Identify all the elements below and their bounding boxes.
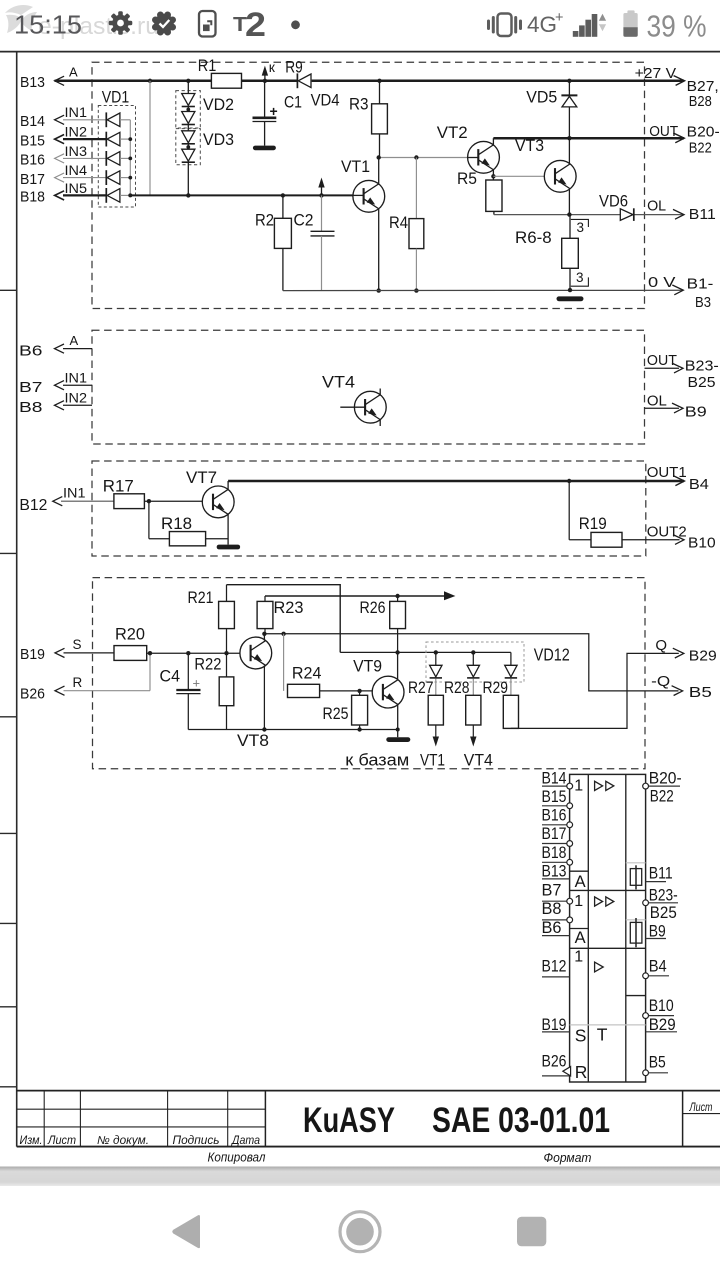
- svg-text:R1: R1: [198, 56, 217, 75]
- svg-text:IN2: IN2: [65, 390, 88, 406]
- nav back button: [172, 1215, 200, 1248]
- svg-text:IN2: IN2: [65, 124, 88, 140]
- pin B4 (logic): [643, 957, 669, 979]
- svg-text:R28: R28: [444, 678, 470, 697]
- resistor R26: [360, 596, 406, 652]
- transistor VT3: [515, 136, 576, 192]
- svg-text:A: A: [70, 333, 79, 348]
- svg-text:R23: R23: [274, 598, 304, 617]
- pin B16 (logic): [542, 806, 573, 828]
- svg-text:B5: B5: [649, 1053, 666, 1072]
- wire R29 to Q output: [511, 648, 684, 728]
- svg-text:B18: B18: [542, 843, 567, 862]
- functional block 4 dashed border: [93, 578, 646, 769]
- svg-text:+: +: [555, 10, 563, 26]
- pin B11 (logic): [646, 864, 673, 883]
- bottom bus wire: [188, 728, 399, 732]
- svg-text:B6: B6: [542, 918, 562, 937]
- svg-text:4G: 4G: [527, 12, 557, 37]
- svg-text:2: 2: [245, 6, 266, 44]
- wire: [120, 119, 130, 121]
- svg-text:B22: B22: [650, 787, 674, 806]
- svg-text:Формат: Формат: [544, 1151, 592, 1165]
- svg-text:R24: R24: [292, 664, 322, 683]
- svg-text:B13: B13: [542, 862, 567, 881]
- resistor R25: [323, 691, 368, 732]
- svg-text:A: A: [575, 929, 586, 947]
- pin B16 input IN3: [20, 143, 106, 169]
- bottom shadow bar: [0, 1167, 720, 1187]
- pin B12 (logic): [542, 957, 570, 977]
- svg-text:B16: B16: [20, 152, 45, 169]
- svg-text:IN5: IN5: [65, 180, 88, 196]
- wire VT1 collector node: [377, 155, 469, 184]
- svg-text:+27 V: +27 V: [635, 65, 677, 82]
- svg-text:R22: R22: [194, 655, 221, 674]
- pin B26 input R: [20, 653, 150, 702]
- capacitor C2: [294, 195, 335, 290]
- transistor VT4: [322, 373, 386, 426]
- wire VT2 collector to OUT rail: [492, 138, 494, 145]
- svg-text:B14: B14: [20, 113, 45, 130]
- pin B20-B22 OUT output: [649, 123, 720, 157]
- diode stack VD2: [176, 81, 234, 128]
- pin B26 (logic) with edge triangle: [542, 1052, 571, 1076]
- pin B6 input A: [19, 333, 92, 360]
- svg-text:B26: B26: [542, 1052, 567, 1071]
- svg-text:IN3: IN3: [65, 143, 88, 159]
- svg-text:1: 1: [574, 778, 583, 795]
- svg-text:Копировал: Копировал: [208, 1151, 266, 1165]
- svg-text:R25: R25: [323, 704, 349, 723]
- pin B8 (logic): [542, 899, 573, 923]
- svg-text:B4: B4: [649, 957, 667, 976]
- diode VD1.3: [105, 151, 107, 166]
- svg-text:B5: B5: [689, 684, 712, 701]
- svg-text:A: A: [575, 873, 586, 891]
- svg-text:+: +: [270, 103, 278, 119]
- diode array VD1 dashed box: [98, 88, 135, 208]
- svg-text:R29: R29: [483, 678, 509, 697]
- svg-text:R18: R18: [161, 514, 192, 533]
- ground at R6-8: [557, 296, 584, 301]
- svg-text:B15: B15: [542, 787, 567, 806]
- transistor VT9: [353, 657, 404, 708]
- pin B5 -Q output: [651, 673, 712, 701]
- diode VD1.1: [105, 112, 107, 127]
- svg-text:B12: B12: [19, 497, 47, 514]
- wire R21 top feed: [227, 585, 341, 653]
- ground at C1: [253, 146, 276, 151]
- pin B14 (logic): [542, 769, 573, 789]
- amplifier symbol element 1: [595, 781, 614, 790]
- svg-text:B12: B12: [542, 957, 567, 976]
- svg-text:B4: B4: [689, 476, 709, 493]
- svg-text:OUT2: OUT2: [647, 524, 687, 541]
- resistor R28: [444, 678, 481, 725]
- pin B17 input IN4: [20, 162, 106, 188]
- pin B11 OL output: [647, 198, 716, 223]
- svg-text:R6-8: R6-8: [515, 228, 552, 247]
- status bar: [5, 5, 707, 44]
- svg-text:R3: R3: [349, 95, 369, 114]
- svg-text:R27: R27: [408, 678, 434, 697]
- resistor R3: [349, 79, 387, 158]
- pin B7 input IN1: [19, 370, 92, 397]
- pin B8 input IN2: [19, 390, 92, 416]
- svg-text:B26: B26: [20, 686, 45, 703]
- pin B6 (logic): [542, 918, 570, 937]
- svg-text:1: 1: [574, 949, 583, 966]
- svg-text:Лист: Лист: [689, 1102, 713, 1114]
- svg-text:B22: B22: [689, 140, 712, 157]
- svg-text:R2: R2: [255, 211, 274, 230]
- pin B17 (logic): [542, 824, 573, 846]
- svg-text:OL: OL: [647, 198, 666, 215]
- wire VT3 emitter / OL rail: [494, 189, 684, 219]
- pin B15 input IN2: [20, 124, 106, 150]
- pin B29 Q output: [655, 637, 716, 665]
- svg-text:R4: R4: [389, 213, 408, 232]
- svg-text:R26: R26: [360, 598, 386, 617]
- pin B27,B28 +27V output: [635, 65, 719, 110]
- wire VT3 collector: [568, 138, 570, 164]
- svg-text:1: 1: [574, 893, 583, 910]
- diode VD12.1: [430, 652, 442, 678]
- ground at VT7: [217, 545, 241, 550]
- svg-text:IN1: IN1: [65, 370, 88, 386]
- svg-text:B16: B16: [542, 806, 567, 825]
- svg-text:R21: R21: [188, 588, 214, 607]
- svg-text:B19: B19: [20, 646, 45, 663]
- diode stack VD3: [176, 125, 234, 195]
- amplifier symbol element 2: [595, 897, 614, 906]
- resistor R21: [188, 585, 235, 654]
- diode VD4: [297, 73, 339, 109]
- pin B13 (logic): [542, 862, 570, 881]
- pin B1-B3 0V output: [648, 274, 713, 311]
- faint scan lines: [570, 863, 646, 1025]
- svg-text:IN4: IN4: [65, 162, 88, 178]
- fuse symbol at B11: [630, 865, 641, 889]
- svg-text:B25: B25: [650, 903, 677, 922]
- wire +27V rail: [55, 76, 685, 86]
- resistor R23: [257, 596, 303, 634]
- wire VT9 collector rail: [340, 650, 511, 679]
- resistor R6-8: [515, 215, 578, 290]
- OUT rail wire: [493, 133, 684, 143]
- wire VT9 emitter to ground: [397, 705, 399, 738]
- svg-text:VD2: VD2: [203, 95, 234, 114]
- qualifier A box 2: [570, 929, 589, 948]
- svg-text:к базам: к базам: [345, 752, 409, 770]
- svg-text:B13: B13: [20, 74, 45, 91]
- amplifier symbol element 3: [595, 962, 604, 972]
- svg-text:B10: B10: [649, 996, 674, 1015]
- svg-text:B25: B25: [688, 374, 716, 391]
- 0V rail wire: [283, 285, 683, 295]
- svg-text:B9: B9: [685, 404, 707, 421]
- wire: [120, 138, 130, 140]
- wire R23 top feed with arrow: [265, 591, 455, 600]
- svg-text:VD5: VD5: [526, 88, 557, 107]
- svg-text:OUT1: OUT1: [647, 464, 687, 481]
- base rail wire: [130, 193, 353, 197]
- svg-text:B11: B11: [649, 864, 673, 883]
- logic element separators: [570, 890, 646, 995]
- resistor R4: [389, 158, 424, 293]
- label to bases VT1 VT4: [345, 752, 493, 770]
- wire VT7 emitter to ground: [227, 514, 229, 544]
- svg-text:B8: B8: [542, 899, 562, 918]
- svg-text:B7: B7: [19, 379, 43, 396]
- svg-text:VT2: VT2: [437, 123, 468, 142]
- svg-text:B20-: B20-: [687, 124, 720, 141]
- pin B9 OL output: [645, 393, 707, 421]
- svg-text:VT3: VT3: [515, 136, 544, 155]
- pin B23-B25 (logic): [643, 886, 678, 923]
- svg-text:VT7: VT7: [186, 468, 217, 487]
- wire VT2 emitter node: [491, 170, 545, 180]
- pin B9 (logic): [646, 921, 666, 940]
- svg-text:OL: OL: [647, 393, 667, 410]
- wire VT8 emitter: [262, 665, 266, 731]
- svg-text:B15: B15: [20, 132, 45, 149]
- transistor VT7: [186, 468, 234, 518]
- svg-text:B6: B6: [19, 343, 43, 360]
- resistor R29: [483, 678, 519, 728]
- wire: [120, 194, 130, 196]
- resistor R22: [194, 653, 233, 729]
- svg-text:R17: R17: [103, 477, 134, 496]
- diode VD1.4: [105, 170, 107, 185]
- svg-text:Дата: Дата: [230, 1135, 260, 1147]
- svg-text:VD4: VD4: [311, 91, 340, 110]
- svg-text:B29: B29: [649, 1015, 676, 1034]
- pin B10 OUT2 output: [647, 524, 716, 552]
- resistor R2: [255, 195, 291, 290]
- wire VT8 base node: [147, 651, 240, 655]
- svg-text:VD1: VD1: [102, 88, 130, 107]
- resistor R18: [149, 501, 228, 546]
- svg-text:Q: Q: [655, 637, 667, 654]
- VD1 anode bus wire: [129, 120, 131, 196]
- wire to VT4 base: [472, 725, 474, 744]
- svg-text:T: T: [597, 1025, 608, 1045]
- wire arrow up from C2 node: [321, 181, 323, 196]
- pin B4 OUT1 output: [647, 464, 709, 493]
- wire A to base rail: [149, 81, 151, 196]
- svg-text:B1-: B1-: [687, 275, 714, 292]
- svg-text:B9: B9: [649, 921, 666, 940]
- svg-text:к: к: [269, 59, 276, 75]
- svg-text:VD6: VD6: [599, 192, 628, 211]
- svg-text:Подпись: Подпись: [173, 1135, 220, 1147]
- svg-text:0 V: 0 V: [648, 274, 675, 291]
- svg-text:-Q: -Q: [651, 673, 670, 690]
- capacitor C1: [253, 81, 303, 146]
- pin B23-B25 OUT output: [645, 352, 719, 391]
- pin B13 input A: [20, 65, 78, 92]
- svg-text:B20-: B20-: [649, 769, 682, 788]
- svg-text:3: 3: [577, 220, 585, 235]
- svg-text:C4: C4: [160, 667, 181, 686]
- svg-text:B11: B11: [689, 206, 716, 223]
- qualifier A box 1: [570, 871, 589, 891]
- svg-text:B23-: B23-: [649, 886, 678, 905]
- diode VD1.2: [105, 132, 107, 147]
- svg-text:SAE 03-01.01: SAE 03-01.01: [432, 1100, 610, 1140]
- svg-text:KuASY: KuASY: [303, 1100, 395, 1140]
- svg-text:R20: R20: [115, 625, 145, 644]
- svg-text:OUT: OUT: [649, 123, 678, 140]
- svg-text:OUT: OUT: [647, 352, 677, 369]
- wire to VT1 base: [435, 725, 437, 744]
- svg-text:R: R: [73, 675, 83, 690]
- svg-text:IN1: IN1: [63, 485, 86, 501]
- fuse symbol at B9: [630, 918, 642, 947]
- svg-text:IN1: IN1: [65, 104, 88, 120]
- svg-text:B17: B17: [20, 171, 45, 188]
- pin B20-B22 (logic): [643, 769, 682, 806]
- svg-text:VD3: VD3: [203, 130, 234, 149]
- svg-text:15:15: 15:15: [14, 12, 82, 40]
- resistor R19: [569, 481, 684, 547]
- logic element block outline: [570, 774, 646, 1082]
- diode VD1.5: [105, 188, 107, 203]
- svg-text:+: +: [193, 676, 201, 691]
- svg-text:R5: R5: [457, 169, 477, 188]
- diode VD5: [526, 79, 577, 139]
- svg-text:C1: C1: [284, 93, 302, 112]
- ground at VT9: [386, 737, 410, 742]
- diode VD6: [599, 192, 634, 221]
- svg-text:VT4: VT4: [464, 752, 493, 770]
- nav home button: [340, 1212, 380, 1252]
- pin B7 (logic): [542, 880, 573, 904]
- pin B5 (logic): [643, 1053, 668, 1076]
- functional block 2 dashed border: [92, 330, 645, 444]
- pin B14 input IN1: [20, 104, 106, 130]
- wire: [120, 177, 130, 179]
- resistor R27: [408, 678, 443, 725]
- diode VD12.3: [505, 652, 517, 678]
- svg-text:VT4: VT4: [322, 373, 355, 392]
- svg-text:VD12: VD12: [534, 645, 570, 665]
- wire VT1 emitter: [377, 209, 381, 293]
- resistor R20: [114, 625, 147, 661]
- svg-text:B7: B7: [542, 880, 562, 899]
- wire count mark 3: [571, 219, 589, 234]
- functional block 1 dashed border: [92, 62, 645, 308]
- svg-text:S: S: [575, 1025, 587, 1045]
- svg-text:R19: R19: [579, 514, 607, 533]
- svg-text:39 %: 39 %: [647, 10, 707, 44]
- pin B19 (logic): [542, 1015, 570, 1034]
- svg-text:R9: R9: [285, 58, 303, 77]
- pin B18 input IN5: [20, 180, 106, 206]
- diode VD12.2: [467, 652, 479, 678]
- wire OUT1 rail: [228, 476, 684, 490]
- resistor R24: [284, 634, 373, 698]
- functional block 3 dashed border: [92, 461, 646, 556]
- svg-text:B8: B8: [19, 399, 43, 416]
- svg-text:R: R: [575, 1062, 588, 1082]
- transistor VT2: [437, 123, 500, 173]
- pin B18 (logic): [542, 843, 573, 865]
- diode group VD12 dotted box: [426, 642, 570, 682]
- svg-text:3: 3: [576, 270, 584, 285]
- svg-text:VT1: VT1: [420, 752, 445, 770]
- svg-text:B19: B19: [542, 1015, 567, 1034]
- svg-text:B29: B29: [689, 648, 717, 665]
- svg-text:Изм.: Изм.: [20, 1135, 43, 1147]
- wire: [120, 157, 130, 159]
- svg-text:VT8: VT8: [237, 731, 269, 750]
- svg-text:B28: B28: [689, 93, 712, 110]
- svg-text:VT1: VT1: [341, 157, 370, 176]
- svg-text:Лист: Лист: [47, 1135, 76, 1147]
- svg-text:B3: B3: [695, 294, 711, 311]
- trigger labels S T R: [575, 1025, 608, 1082]
- svg-text:S: S: [73, 637, 82, 652]
- title block: [17, 1091, 720, 1165]
- nav recents button: [517, 1217, 546, 1247]
- capacitor C4: [160, 653, 201, 729]
- pin B12 input IN1: [19, 485, 114, 515]
- svg-text:B17: B17: [542, 824, 567, 843]
- transistor VT8: [237, 637, 272, 750]
- wire count mark 3: [571, 270, 589, 286]
- pin B29 (logic): [646, 1015, 677, 1034]
- svg-text:B18: B18: [20, 189, 45, 206]
- svg-text:B14: B14: [542, 769, 567, 788]
- svg-text:VT9: VT9: [353, 657, 382, 676]
- pin B15 (logic): [542, 787, 573, 809]
- resistor R17: [103, 477, 203, 509]
- pin B19 input S: [20, 637, 114, 663]
- svg-text:B23-: B23-: [685, 358, 719, 375]
- resistor R1: [198, 56, 242, 88]
- wire VT8 collector feedback: [262, 632, 682, 696]
- wire to R9: [262, 58, 303, 84]
- svg-text:C2: C2: [294, 211, 314, 230]
- resistor R5: [457, 169, 502, 215]
- svg-text:B10: B10: [688, 535, 716, 552]
- transistor VT1: [341, 157, 385, 212]
- junction: [148, 79, 152, 83]
- svg-text:A: A: [69, 65, 78, 80]
- pin B10 (logic): [643, 996, 674, 1018]
- svg-text:№ докум.: № докум.: [97, 1135, 149, 1147]
